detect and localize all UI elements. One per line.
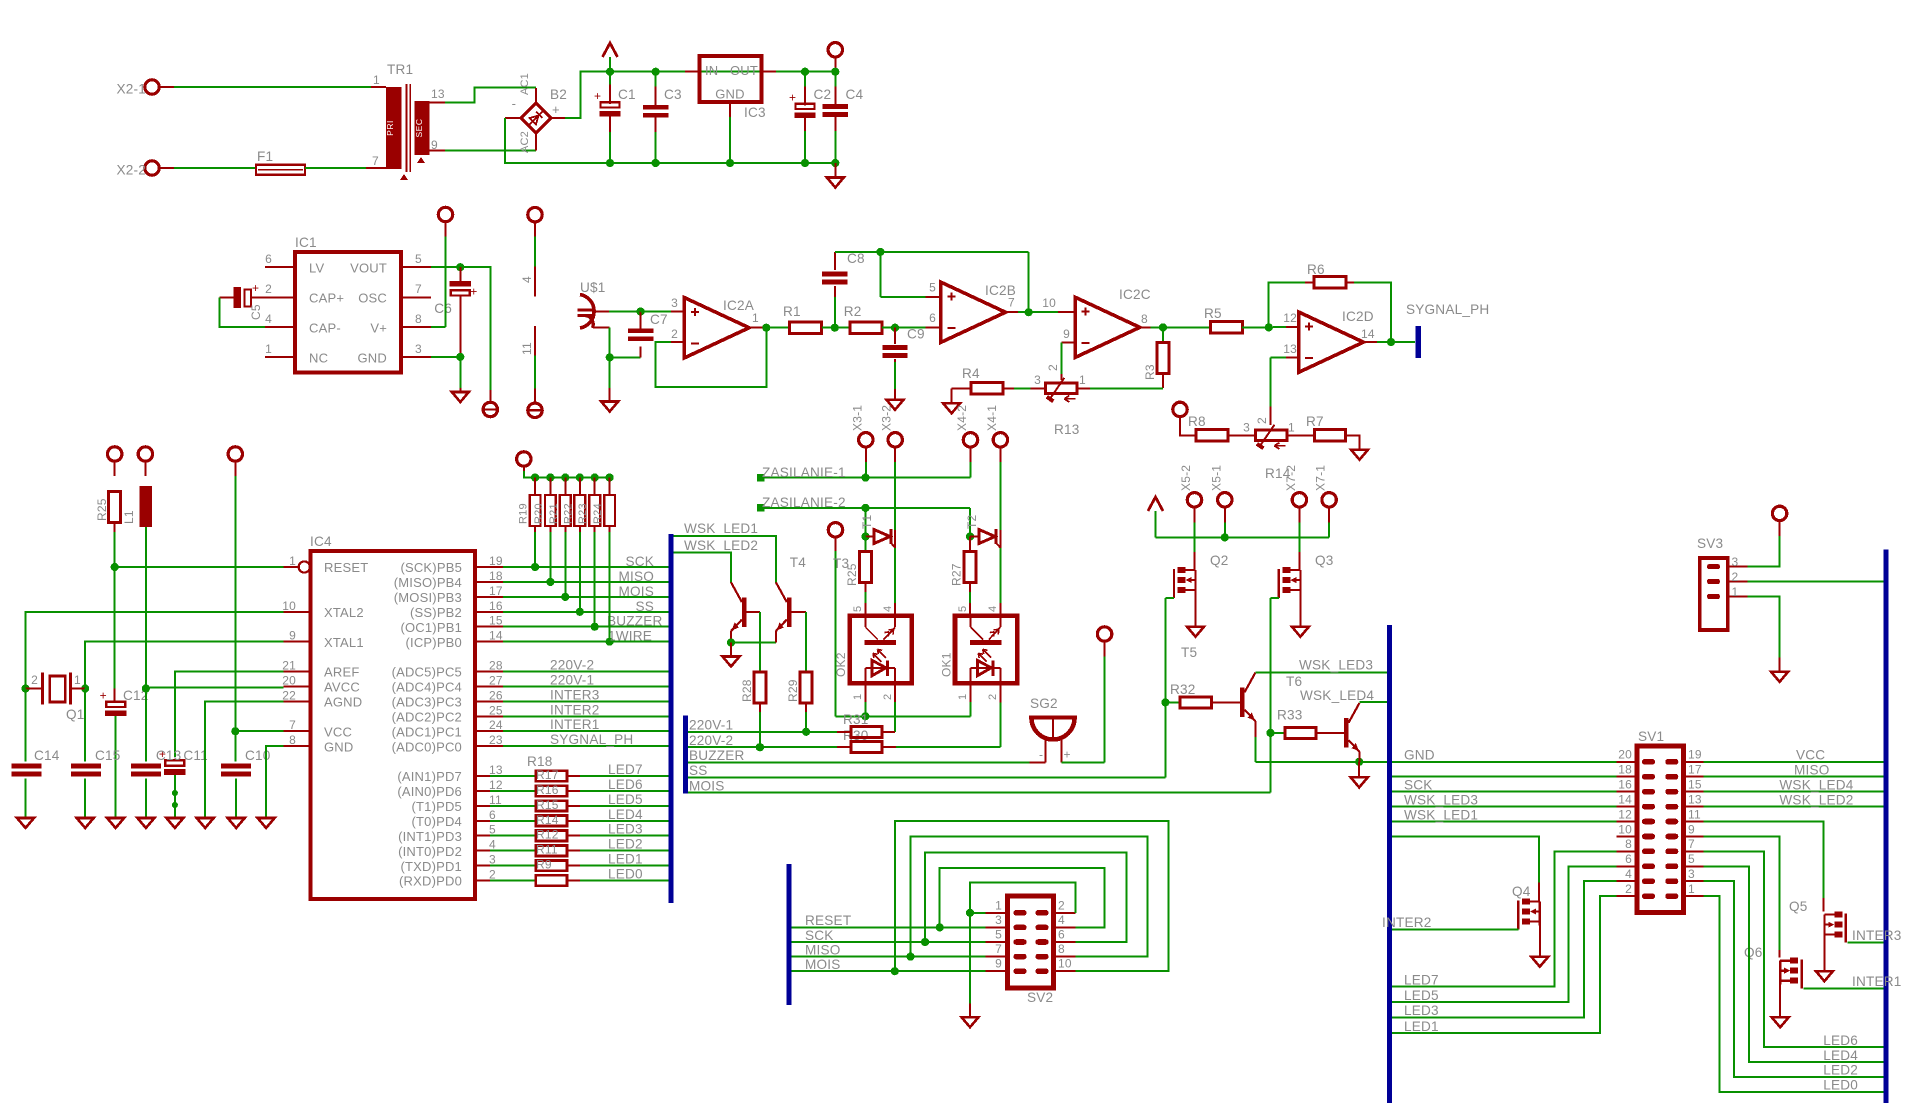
svg-text:SCK: SCK (805, 928, 834, 943)
svg-text:(SCK)PB5: (SCK)PB5 (400, 560, 462, 575)
svg-text:VCC: VCC (324, 724, 352, 739)
svg-text:INTER2: INTER2 (1382, 915, 1432, 930)
svg-text:LED6: LED6 (1823, 1033, 1858, 1048)
svg-text:B2: B2 (550, 87, 567, 102)
svg-text:3: 3 (1034, 373, 1041, 387)
svg-text:SS: SS (689, 763, 708, 778)
svg-text:220V-2: 220V-2 (689, 733, 733, 748)
svg-text:RESET: RESET (324, 560, 368, 575)
svg-text:SG2: SG2 (1030, 696, 1058, 711)
svg-text:9: 9 (289, 629, 296, 643)
svg-text:U$1: U$1 (580, 280, 606, 295)
svg-text:19: 19 (1688, 748, 1702, 762)
svg-text:6: 6 (489, 808, 496, 822)
svg-text:R22: R22 (562, 503, 574, 524)
svg-text:220V-1: 220V-1 (689, 718, 733, 733)
svg-text:5: 5 (1688, 852, 1695, 866)
svg-text:(T0)PD4: (T0)PD4 (411, 814, 462, 829)
svg-text:LED7: LED7 (608, 762, 643, 777)
svg-text:20: 20 (282, 673, 296, 687)
svg-text:18: 18 (489, 569, 503, 583)
svg-text:R28: R28 (740, 679, 754, 702)
svg-text:GND: GND (324, 739, 354, 754)
svg-text:7: 7 (1008, 296, 1015, 310)
svg-text:LED0: LED0 (1823, 1078, 1858, 1093)
svg-text:LED5: LED5 (608, 792, 643, 807)
svg-text:C2: C2 (814, 87, 832, 102)
svg-text:12: 12 (1283, 311, 1297, 325)
svg-text:LED5: LED5 (1404, 988, 1439, 1003)
svg-text:R13: R13 (1054, 422, 1080, 437)
svg-text:X5-1: X5-1 (1209, 465, 1223, 491)
svg-text:3: 3 (995, 913, 1002, 927)
svg-text:3: 3 (1732, 555, 1739, 569)
svg-text:C15: C15 (95, 748, 121, 763)
svg-text:16: 16 (489, 599, 503, 613)
svg-text:13: 13 (1283, 342, 1297, 356)
svg-text:(ADC1)PC1: (ADC1)PC1 (392, 724, 462, 739)
svg-text:R14: R14 (536, 813, 559, 827)
svg-text:LED2: LED2 (608, 837, 643, 852)
svg-text:5: 5 (852, 606, 864, 612)
svg-text:R12: R12 (536, 828, 559, 842)
svg-text:R11: R11 (536, 843, 558, 857)
svg-text:C14: C14 (34, 748, 60, 763)
svg-text:(ADC3)PC3: (ADC3)PC3 (392, 695, 462, 710)
svg-text:(MISO)PB4: (MISO)PB4 (394, 575, 462, 590)
svg-text:AVCC: AVCC (324, 680, 360, 695)
svg-text:LED2: LED2 (1823, 1063, 1858, 1078)
svg-text:R32: R32 (1170, 682, 1196, 697)
svg-text:Q2: Q2 (1210, 553, 1229, 568)
svg-text:R3: R3 (1143, 364, 1157, 380)
svg-text:XTAL2: XTAL2 (324, 605, 364, 620)
svg-text:PRI: PRI (385, 120, 395, 136)
svg-text:T1: T1 (860, 514, 874, 529)
svg-text:C13: C13 (156, 748, 182, 763)
svg-text:11: 11 (520, 342, 534, 355)
svg-text:1: 1 (1288, 421, 1295, 435)
svg-text:SV1: SV1 (1638, 729, 1664, 744)
svg-text:2: 2 (671, 327, 678, 341)
svg-text:10: 10 (1058, 957, 1072, 971)
svg-text:14: 14 (489, 629, 503, 643)
svg-text:2: 2 (265, 282, 272, 296)
svg-text:R6: R6 (1307, 262, 1325, 277)
svg-text:1: 1 (265, 342, 272, 356)
svg-text:1WIRE: 1WIRE (608, 629, 652, 644)
svg-text:R4: R4 (962, 366, 980, 381)
svg-text:6: 6 (1625, 852, 1632, 866)
svg-text:LED4: LED4 (608, 807, 643, 822)
svg-text:11: 11 (489, 793, 502, 807)
svg-text:13: 13 (431, 87, 445, 101)
svg-text:AC1: AC1 (519, 73, 531, 95)
svg-text:3: 3 (671, 296, 678, 310)
svg-text:R18: R18 (527, 754, 553, 769)
svg-text:OK1: OK1 (939, 652, 953, 677)
svg-text:10: 10 (282, 599, 296, 613)
svg-text:(AIN1)PD7: (AIN1)PD7 (397, 769, 462, 784)
svg-text:19: 19 (489, 554, 503, 568)
svg-text:L1: L1 (122, 510, 136, 524)
svg-text:1: 1 (1079, 373, 1086, 387)
svg-text:10: 10 (1618, 822, 1632, 836)
svg-text:C1: C1 (618, 87, 636, 102)
svg-text:-: - (512, 96, 516, 111)
svg-text:R15: R15 (536, 798, 559, 812)
svg-text:SYGNAL_PH: SYGNAL_PH (550, 732, 633, 747)
svg-text:WSK_LED1: WSK_LED1 (1404, 807, 1478, 822)
svg-text:2: 2 (1046, 364, 1060, 371)
svg-text:R17: R17 (536, 768, 559, 782)
svg-text:X3-1: X3-1 (850, 405, 864, 431)
svg-text:(AIN0)PD6: (AIN0)PD6 (397, 784, 462, 799)
svg-text:(ADC5)PC5: (ADC5)PC5 (392, 665, 462, 680)
svg-text:IC1: IC1 (295, 235, 317, 250)
svg-text:R9: R9 (536, 858, 552, 872)
svg-text:IC2D: IC2D (1342, 309, 1374, 324)
svg-text:INTER1: INTER1 (550, 717, 600, 732)
svg-text:3: 3 (1243, 421, 1250, 435)
svg-text:Q1: Q1 (66, 707, 85, 722)
svg-text:X7-2: X7-2 (1284, 465, 1298, 491)
svg-text:Q5: Q5 (1789, 899, 1808, 914)
svg-text:28: 28 (489, 659, 503, 673)
svg-text:1: 1 (852, 694, 864, 700)
svg-text:T2: T2 (965, 514, 979, 529)
svg-text:LED6: LED6 (608, 777, 643, 792)
svg-text:1: 1 (957, 694, 969, 700)
svg-text:9: 9 (1688, 822, 1695, 836)
svg-text:4: 4 (265, 312, 272, 326)
svg-text:R20: R20 (533, 503, 545, 524)
svg-text:RESET: RESET (805, 913, 851, 928)
svg-text:(ICP)PB0: (ICP)PB0 (405, 635, 462, 650)
svg-text:R27: R27 (950, 563, 964, 586)
svg-text:CAP+: CAP+ (309, 291, 344, 306)
svg-text:4: 4 (1625, 867, 1632, 881)
svg-text:R5: R5 (1204, 306, 1222, 321)
svg-text:AC2: AC2 (519, 131, 531, 153)
svg-text:C9: C9 (907, 327, 925, 342)
svg-text:R1: R1 (783, 304, 801, 319)
svg-text:R8: R8 (1188, 414, 1206, 429)
svg-text:OUT: OUT (730, 63, 758, 78)
svg-text:X4-1: X4-1 (985, 405, 999, 431)
svg-text:NC: NC (309, 351, 328, 366)
svg-text:INTER2: INTER2 (550, 702, 600, 717)
svg-text:13: 13 (489, 763, 503, 777)
svg-text:R24: R24 (592, 503, 604, 524)
svg-text:5: 5 (957, 606, 969, 612)
svg-text:(INT0)PD2: (INT0)PD2 (398, 844, 462, 859)
svg-text:MISO: MISO (1794, 763, 1830, 778)
svg-text:SCK: SCK (625, 554, 654, 569)
svg-text:3: 3 (1688, 867, 1695, 881)
svg-text:LED1: LED1 (608, 852, 643, 867)
svg-text:3: 3 (489, 853, 496, 867)
svg-text:(OC1)PB1: (OC1)PB1 (400, 620, 462, 635)
svg-text:T6: T6 (1286, 674, 1302, 689)
svg-text:+: + (789, 90, 796, 104)
svg-text:C5: C5 (249, 304, 263, 320)
svg-text:17: 17 (1688, 763, 1702, 777)
svg-text:4: 4 (987, 606, 999, 612)
svg-text:2: 2 (987, 694, 999, 700)
svg-text:X2-2: X2-2 (116, 163, 146, 178)
svg-text:+: + (594, 89, 601, 103)
svg-text:CAP-: CAP- (309, 321, 341, 336)
svg-text:2: 2 (1255, 417, 1269, 424)
svg-text:X7-1: X7-1 (1314, 465, 1328, 491)
svg-text:IC2C: IC2C (1119, 287, 1151, 302)
svg-text:8: 8 (1058, 942, 1065, 956)
svg-text:Q6: Q6 (1744, 945, 1763, 960)
svg-text:R21: R21 (548, 503, 560, 524)
svg-text:10: 10 (1042, 296, 1056, 310)
svg-text:4: 4 (489, 838, 496, 852)
svg-text:(ADC4)PC4: (ADC4)PC4 (392, 680, 462, 695)
svg-text:OSC: OSC (358, 291, 387, 306)
svg-text:SYGNAL_PH: SYGNAL_PH (1406, 302, 1489, 317)
svg-text:6: 6 (265, 252, 272, 266)
svg-text:220V-2: 220V-2 (550, 658, 594, 673)
svg-text:2: 2 (882, 694, 894, 700)
svg-text:ZASILANIE-2: ZASILANIE-2 (762, 495, 846, 510)
svg-text:WSK_LED2: WSK_LED2 (1779, 792, 1853, 807)
svg-text:1: 1 (995, 898, 1002, 912)
svg-text:LED4: LED4 (1823, 1048, 1858, 1063)
svg-text:WSK_LED1: WSK_LED1 (684, 521, 758, 536)
svg-text:R16: R16 (536, 783, 559, 797)
svg-text:INTER1: INTER1 (1852, 974, 1902, 989)
svg-text:LED3: LED3 (608, 822, 643, 837)
svg-text:+: + (552, 102, 560, 117)
svg-text:MISO: MISO (618, 569, 654, 584)
svg-text:4: 4 (1058, 913, 1065, 927)
svg-text:15: 15 (1688, 777, 1702, 791)
svg-text:1: 1 (1688, 882, 1695, 896)
svg-text:20: 20 (1618, 748, 1632, 762)
svg-text:T5: T5 (1181, 645, 1197, 660)
svg-text:(INT1)PD3: (INT1)PD3 (398, 829, 462, 844)
svg-text:16: 16 (1618, 777, 1632, 791)
svg-text:X2-1: X2-1 (116, 82, 146, 97)
svg-text:+: + (1064, 748, 1071, 762)
svg-text:XTAL1: XTAL1 (324, 635, 364, 650)
svg-text:LV: LV (309, 261, 324, 276)
svg-text:5: 5 (929, 281, 936, 295)
svg-text:AREF: AREF (324, 665, 359, 680)
svg-text:MOIS: MOIS (618, 584, 654, 599)
svg-text:11: 11 (1688, 807, 1701, 821)
svg-text:IC4: IC4 (310, 534, 332, 549)
svg-text:22: 22 (282, 688, 296, 702)
svg-text:24: 24 (489, 718, 503, 732)
svg-text:WSK_LED3: WSK_LED3 (1299, 658, 1373, 673)
svg-text:(RXD)PD0: (RXD)PD0 (399, 874, 462, 889)
svg-text:IC2A: IC2A (723, 298, 755, 313)
svg-text:17: 17 (489, 584, 503, 598)
svg-text:R19: R19 (518, 503, 530, 524)
svg-text:R31: R31 (843, 712, 869, 727)
svg-text:MISO: MISO (805, 942, 841, 957)
svg-text:R29: R29 (786, 679, 800, 702)
svg-text:LED0: LED0 (608, 867, 643, 882)
svg-text:TR1: TR1 (387, 62, 413, 77)
svg-text:SS: SS (635, 599, 654, 614)
svg-text:+: + (470, 284, 477, 298)
svg-text:(MOSI)PB3: (MOSI)PB3 (394, 590, 462, 605)
svg-text:-: - (1039, 748, 1043, 762)
svg-text:WSK_LED4: WSK_LED4 (1779, 777, 1853, 792)
svg-text:X3-2: X3-2 (880, 405, 894, 431)
svg-text:12: 12 (1618, 807, 1632, 821)
svg-text:23: 23 (489, 733, 503, 747)
svg-text:WSK_LED2: WSK_LED2 (684, 538, 758, 553)
svg-text:27: 27 (489, 673, 503, 687)
svg-text:5: 5 (995, 928, 1002, 942)
svg-text:BUZZER: BUZZER (607, 614, 663, 629)
svg-text:220V-1: 220V-1 (550, 672, 594, 687)
svg-text:SEC: SEC (414, 119, 424, 138)
svg-text:VOUT: VOUT (350, 261, 387, 276)
svg-text:C3: C3 (664, 87, 682, 102)
svg-text:8: 8 (415, 312, 422, 326)
svg-text:Q3: Q3 (1315, 553, 1334, 568)
svg-text:8: 8 (1625, 837, 1632, 851)
svg-text:R25: R25 (95, 498, 109, 521)
svg-text:R33: R33 (1277, 708, 1303, 723)
svg-text:7: 7 (372, 154, 379, 168)
svg-text:MOIS: MOIS (689, 778, 725, 793)
svg-text:7: 7 (995, 942, 1002, 956)
svg-text:SCK: SCK (1404, 777, 1433, 792)
svg-text:T3: T3 (833, 556, 849, 571)
svg-text:15: 15 (489, 614, 503, 628)
svg-text:26: 26 (489, 688, 503, 702)
svg-text:13: 13 (1688, 792, 1702, 806)
svg-text:1: 1 (289, 554, 296, 568)
svg-text:(TXD)PD1: (TXD)PD1 (400, 859, 462, 874)
svg-text:8: 8 (289, 733, 296, 747)
svg-text:C7: C7 (650, 312, 668, 327)
svg-text:LED3: LED3 (1404, 1003, 1439, 1018)
svg-text:5: 5 (415, 252, 422, 266)
svg-text:SV3: SV3 (1697, 536, 1723, 551)
svg-text:LED7: LED7 (1404, 973, 1439, 988)
svg-text:1: 1 (1732, 585, 1739, 599)
svg-text:INTER3: INTER3 (1852, 928, 1902, 943)
svg-text:25: 25 (489, 703, 503, 717)
svg-text:21: 21 (282, 659, 296, 673)
svg-text:+: + (100, 688, 107, 702)
svg-text:(ADC0)PC0: (ADC0)PC0 (392, 739, 462, 754)
svg-text:IC3: IC3 (744, 105, 766, 120)
svg-text:4: 4 (882, 606, 894, 612)
svg-text:R23: R23 (577, 503, 589, 524)
svg-text:T4: T4 (790, 555, 807, 570)
svg-text:SV2: SV2 (1027, 990, 1053, 1005)
svg-text:2: 2 (31, 673, 38, 687)
svg-text:GND: GND (1404, 748, 1435, 763)
svg-text:V+: V+ (370, 321, 387, 336)
svg-text:2: 2 (1625, 882, 1632, 896)
svg-text:GND: GND (715, 87, 745, 102)
svg-text:18: 18 (1618, 763, 1632, 777)
svg-text:GND: GND (358, 351, 388, 366)
svg-text:(SS)PB2: (SS)PB2 (410, 605, 462, 620)
svg-text:WSK_LED4: WSK_LED4 (1300, 688, 1374, 703)
svg-text:Q4: Q4 (1512, 884, 1531, 899)
svg-text:2: 2 (1058, 898, 1065, 912)
svg-text:X5-2: X5-2 (1179, 465, 1193, 491)
svg-text:(ADC2)PC2: (ADC2)PC2 (392, 710, 462, 725)
svg-text:F1: F1 (257, 149, 273, 164)
svg-text:5: 5 (489, 823, 496, 837)
svg-text:LED1: LED1 (1404, 1019, 1439, 1034)
svg-text:1: 1 (373, 73, 380, 87)
svg-text:6: 6 (1058, 928, 1065, 942)
svg-text:7: 7 (415, 282, 422, 296)
svg-text:WSK_LED3: WSK_LED3 (1404, 792, 1478, 807)
svg-text:12: 12 (489, 778, 503, 792)
svg-text:3: 3 (415, 342, 422, 356)
svg-text:MOIS: MOIS (805, 957, 841, 972)
svg-text:ZASILANIE-1: ZASILANIE-1 (762, 465, 846, 480)
svg-text:R2: R2 (844, 304, 862, 319)
svg-text:9: 9 (1063, 327, 1070, 341)
svg-text:8: 8 (1141, 312, 1148, 326)
svg-text:AGND: AGND (324, 695, 362, 710)
svg-text:14: 14 (1618, 792, 1632, 806)
svg-text:+: + (252, 281, 259, 295)
svg-text:C6: C6 (434, 301, 452, 316)
svg-text:7: 7 (289, 718, 296, 732)
svg-text:C4: C4 (846, 87, 864, 102)
svg-text:R7: R7 (1306, 414, 1324, 429)
svg-text:1: 1 (74, 673, 81, 687)
svg-text:4: 4 (520, 276, 534, 283)
svg-text:2: 2 (489, 868, 496, 882)
svg-text:BUZZER: BUZZER (689, 748, 745, 763)
svg-text:INTER3: INTER3 (550, 687, 600, 702)
svg-text:VCC: VCC (1796, 748, 1825, 763)
svg-text:(T1)PD5: (T1)PD5 (411, 799, 462, 814)
svg-text:2: 2 (1732, 570, 1739, 584)
svg-text:1: 1 (752, 311, 759, 325)
svg-text:IN: IN (705, 63, 718, 78)
svg-text:C8: C8 (847, 251, 865, 266)
svg-text:14: 14 (1361, 327, 1375, 341)
svg-text:7: 7 (1688, 837, 1695, 851)
svg-text:X4-2: X4-2 (955, 405, 969, 431)
svg-text:6: 6 (929, 311, 936, 325)
svg-text:9: 9 (995, 957, 1002, 971)
